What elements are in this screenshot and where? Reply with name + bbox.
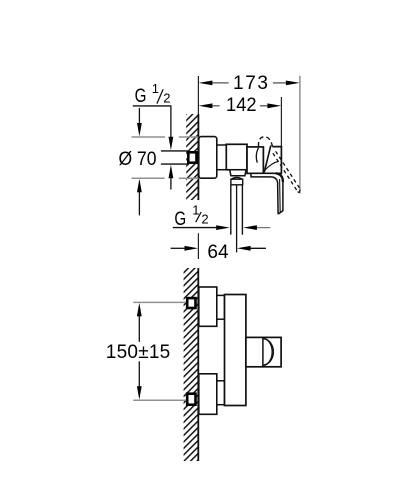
- lever edge inside hub: [264, 145, 271, 172]
- svg-text:G: G: [174, 209, 186, 230]
- step ring top fitting: [217, 295, 225, 319]
- step ring bottom fitting: [217, 381, 225, 405]
- svg-text:Ø 70: Ø 70: [119, 149, 157, 170]
- wall face line: [197, 114, 199, 200]
- mixer body plate (plan): [225, 295, 246, 406]
- leader vertical + down arrow to pipe: [170, 106, 172, 139]
- extension line 142 right (at handle hub): [280, 97, 282, 147]
- svg-text:2: 2: [163, 90, 170, 105]
- valve/handle protrusion (plan): [246, 337, 281, 366]
- supply union square bottom: [187, 394, 195, 405]
- dimension 142: [199, 95, 282, 116]
- label G 1/2 (top, wall connection): [133, 81, 174, 189]
- dimension 173: [199, 73, 300, 94]
- shower outlet box under body: [230, 170, 246, 176]
- supply union square in wall: [188, 152, 196, 162]
- supply pipe through wall: [161, 151, 188, 164]
- extension line 173 right (grey, to lever tip): [299, 76, 301, 194]
- mixer body, side view: [226, 144, 247, 170]
- dimension 64: [171, 242, 266, 263]
- label G 1/2 (bottom, hose thread): [173, 203, 270, 230]
- dashed lever (open position): [265, 151, 300, 192]
- svg-text:G: G: [135, 86, 147, 107]
- cap face line: [262, 337, 264, 366]
- extension line wall face (above wall, for 173/142): [197, 76, 199, 114]
- neck between escutcheon and body: [217, 145, 227, 170]
- shower hose connection: [231, 185, 243, 253]
- outlet nut: [231, 177, 243, 184]
- lever blade inner line: [279, 179, 282, 213]
- dimension 150±15: [106, 303, 171, 400]
- svg-text:150±15: 150±15: [106, 342, 171, 363]
- supply stub bottom (grey): [133, 399, 186, 401]
- svg-text:1: 1: [192, 203, 199, 218]
- leader underline + right arrow to hose: [173, 227, 218, 229]
- leader underline of G 1/2: [133, 105, 172, 107]
- wall face line bottom view: [197, 268, 199, 461]
- supply union square top: [187, 298, 195, 308]
- svg-text:173: 173: [233, 73, 268, 94]
- svg-text:142: 142: [226, 95, 257, 116]
- wall section (hatched) bottom view: [184, 268, 199, 461]
- dashed hub outline (alternate position): [258, 137, 272, 147]
- escutcheon (wall rosette), side view: [199, 137, 217, 179]
- escutcheon top fitting (plan): [199, 287, 217, 326]
- opposing left arrow right of hose: [256, 227, 271, 229]
- lever (closed position, solid): [251, 173, 283, 213]
- svg-text:1: 1: [152, 81, 159, 96]
- lever bend corner (bold): [276, 173, 283, 182]
- cap dome arcs: [263, 338, 272, 365]
- curve on cartridge cap: [256, 148, 258, 163]
- escutcheon bottom fitting (plan): [199, 374, 217, 415]
- cartridge cap: [247, 147, 263, 174]
- svg-text:2: 2: [201, 212, 208, 227]
- Ø70 outside arrows: [137, 108, 142, 215]
- handle hub: [263, 147, 281, 174]
- wall section (hatched) top view: [186, 114, 198, 200]
- svg-text:64: 64: [207, 242, 229, 263]
- extension line wall face (below wall, for 64): [197, 233, 199, 259]
- supply stub top (grey): [133, 301, 186, 303]
- dimension Ø70 extent lines (grey): [132, 137, 199, 178]
- opposing up arrow under pipe: [170, 178, 172, 190]
